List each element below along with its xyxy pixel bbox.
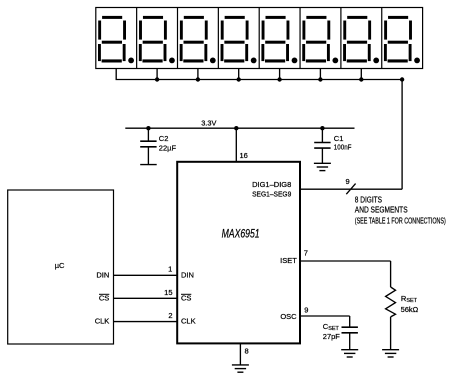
svg-text:2: 2 bbox=[168, 311, 172, 320]
svg-text:22µF: 22µF bbox=[159, 143, 177, 152]
svg-text:DIN: DIN bbox=[181, 271, 194, 280]
svg-text:AND SEGMENTS: AND SEGMENTS bbox=[355, 205, 408, 214]
svg-text:8: 8 bbox=[245, 347, 249, 356]
svg-text:µC: µC bbox=[55, 261, 65, 270]
svg-text:C2: C2 bbox=[159, 134, 169, 143]
svg-text:7: 7 bbox=[304, 249, 308, 258]
svg-text:DIN: DIN bbox=[96, 271, 109, 280]
svg-text:8 DIGITS: 8 DIGITS bbox=[355, 196, 382, 205]
svg-text:9: 9 bbox=[304, 306, 308, 315]
svg-text:16: 16 bbox=[240, 151, 248, 160]
svg-text:ISET: ISET bbox=[280, 256, 297, 265]
svg-text:1: 1 bbox=[168, 265, 172, 274]
svg-text:9: 9 bbox=[346, 177, 350, 186]
svg-text:CS: CS bbox=[99, 294, 109, 303]
svg-text:MAX6951: MAX6951 bbox=[222, 229, 260, 241]
svg-text:15: 15 bbox=[164, 288, 172, 297]
svg-text:RSET: RSET bbox=[401, 294, 418, 304]
svg-text:CS: CS bbox=[181, 294, 191, 303]
svg-text:OSC: OSC bbox=[280, 312, 297, 321]
svg-text:56kΩ: 56kΩ bbox=[401, 305, 419, 314]
svg-text:SEG1–SEG9: SEG1–SEG9 bbox=[252, 189, 291, 198]
svg-text:(SEE TABLE 1 FOR CONNECTIONS): (SEE TABLE 1 FOR CONNECTIONS) bbox=[355, 216, 446, 225]
svg-text:CLK: CLK bbox=[181, 317, 196, 326]
svg-text:CSET: CSET bbox=[323, 322, 340, 332]
svg-text:100nF: 100nF bbox=[334, 142, 352, 151]
svg-text:CLK: CLK bbox=[95, 317, 110, 326]
svg-text:DIG1–DIG8: DIG1–DIG8 bbox=[252, 180, 291, 189]
svg-text:3.3V: 3.3V bbox=[201, 119, 216, 128]
svg-text:27pF: 27pF bbox=[323, 332, 341, 341]
